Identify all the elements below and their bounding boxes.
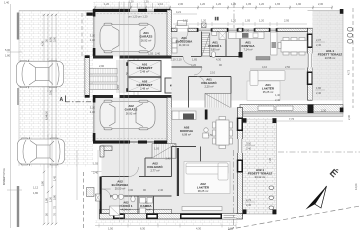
A01 entry door arc <box>178 32 188 42</box>
long vertical dim lines x134/138 <box>134 58 138 222</box>
konyha-laktér wall pier <box>239 52 243 58</box>
street fence wall segment 1 <box>17 13 19 40</box>
svg-text:2,10: 2,10 <box>90 110 96 114</box>
garage A02 roof dashed <box>97 137 167 139</box>
column marker box on wall <box>202 23 207 28</box>
svg-text:ELŐSZOBA: ELŐSZOBA <box>176 38 194 43</box>
svg-text:1,10: 1,10 <box>171 58 177 62</box>
tag symbols near terrace <box>269 186 274 209</box>
terrace A02.1 columns <box>273 118 277 123</box>
paver hatch above garage <box>93 2 170 10</box>
svg-text:4,14 m²: 4,14 m² <box>121 207 130 211</box>
svg-text:26,92 m²: 26,92 m² <box>141 38 152 42</box>
gépészet divider <box>128 76 161 78</box>
svg-text:1,05: 1,05 <box>245 19 251 23</box>
svg-text:1,50: 1,50 <box>108 226 114 230</box>
garage A01 interior <box>93 12 167 57</box>
svg-text:4,30: 4,30 <box>196 226 202 230</box>
svg-text:4,30: 4,30 <box>40 40 44 46</box>
gépészet wall piers <box>126 62 130 66</box>
A02 doormat <box>87 188 95 197</box>
svg-text:5,02: 5,02 <box>228 226 234 230</box>
svg-text:1,90: 1,90 <box>296 2 302 6</box>
setback dashed upper left <box>81 13 83 57</box>
svg-text:23,58 m²: 23,58 m² <box>325 56 336 60</box>
svg-text:1,20: 1,20 <box>231 19 237 23</box>
car 1 (driveway top) <box>17 60 64 88</box>
door arc dolgozo <box>197 77 205 85</box>
svg-text:1,20: 1,20 <box>200 2 206 6</box>
A01 partitions <box>172 32 241 110</box>
svg-text:1,80: 1,80 <box>5 54 11 58</box>
svg-text:KONYHA: KONYHA <box>241 44 255 48</box>
svg-text:2,50: 2,50 <box>285 65 291 69</box>
svg-text:DOLGOZÓ: DOLGOZÓ <box>201 80 217 85</box>
A01 kitchen island <box>256 57 270 61</box>
svg-text:2,48 m²: 2,48 m² <box>140 69 149 73</box>
svg-text:LAKTÉR: LAKTÉR <box>262 85 275 90</box>
svg-text:GÉPÉSZET: GÉPÉSZET <box>136 82 152 87</box>
party wall lintel boxes <box>258 106 274 111</box>
svg-text:1,20: 1,20 <box>104 2 110 6</box>
svg-text:35,25 m²: 35,25 m² <box>263 90 274 94</box>
svg-text:2,40: 2,40 <box>316 91 322 95</box>
svg-text:1,05: 1,05 <box>154 147 160 151</box>
svg-text:2,40: 2,40 <box>158 188 164 192</box>
A02 left wall <box>100 177 102 214</box>
svg-text:1,20: 1,20 <box>129 0 135 4</box>
svg-text:2,40: 2,40 <box>155 52 161 56</box>
svg-text:2,40: 2,40 <box>275 98 281 102</box>
property boundary dashed vertical (bottom-left) <box>83 172 85 230</box>
svg-text:2,40: 2,40 <box>93 171 99 175</box>
kamra room <box>165 78 186 93</box>
svg-text:2,10: 2,10 <box>210 71 216 75</box>
svg-text:2,10: 2,10 <box>177 58 183 62</box>
A02 bottom wall windows <box>113 214 125 220</box>
konyha wall stub black <box>205 110 208 120</box>
street fence wall segment 2 <box>17 88 19 105</box>
svg-text:DOLGOZÓ: DOLGOZÓ <box>147 164 163 169</box>
door arc corridor <box>194 67 202 75</box>
svg-text:1,20: 1,20 <box>216 2 222 6</box>
A01 dining table <box>278 38 307 56</box>
svg-text:2,30: 2,30 <box>347 114 351 120</box>
window tag symbols <box>348 28 353 44</box>
svg-text:2,10: 2,10 <box>90 38 96 42</box>
svg-text:1,12: 1,12 <box>33 186 39 190</box>
svg-text:1,20: 1,20 <box>259 19 265 23</box>
A02 kamra fixtures <box>140 198 146 204</box>
svg-text:1,20: 1,20 <box>231 2 237 6</box>
car 2 (driveway bottom) <box>18 137 65 165</box>
svg-text:1,80: 1,80 <box>316 86 322 90</box>
svg-text:2,90: 2,90 <box>99 64 105 68</box>
terrace A01.1 columns <box>340 9 344 14</box>
A02 lower-left interior <box>102 144 172 216</box>
A01 right wall hatched <box>308 28 313 100</box>
gépészet X marks <box>129 61 161 76</box>
svg-text:23,12 m²: 23,12 m² <box>255 175 266 179</box>
party wall (A01/A02) hatched right part <box>240 105 343 113</box>
svg-text:3,80 m²: 3,80 m² <box>210 47 219 51</box>
party wall hatched left part <box>165 109 241 113</box>
svg-text:7,20: 7,20 <box>244 29 250 33</box>
A01 right wall windows (black frames) <box>307 34 313 49</box>
svg-text:4,20: 4,20 <box>191 63 197 67</box>
svg-text:KISKERT UTCA: KISKERT UTCA <box>3 168 6 185</box>
garage A01 bottom wall <box>93 56 113 59</box>
svg-text:5,00: 5,00 <box>5 48 11 52</box>
A01 main interior <box>172 32 308 101</box>
svg-text:1,05: 1,05 <box>246 2 252 6</box>
door arc előszoba-corridor <box>183 57 191 65</box>
A02 hatched L wall below garage <box>100 146 112 151</box>
gépészet block interior <box>128 61 161 92</box>
setback dash-dot vertical near terrace <box>233 150 235 229</box>
svg-text:1,55: 1,55 <box>93 162 99 166</box>
svg-text:6,00: 6,00 <box>48 36 52 42</box>
A01 terrace door gap <box>307 54 312 68</box>
svg-text:2,95: 2,95 <box>284 19 290 23</box>
svg-text:3,00: 3,00 <box>52 36 56 42</box>
svg-text:2,40: 2,40 <box>166 157 172 161</box>
window jamb caps top wall <box>197 28 278 31</box>
svg-text:1,45: 1,45 <box>52 175 56 181</box>
bottom paver strip <box>95 220 238 226</box>
window tick pairs above garage <box>130 3 152 9</box>
boundary dashed vertical right (top) <box>352 8 354 108</box>
court floor <box>116 60 128 93</box>
svg-text:20,50 m²: 20,50 m² <box>115 186 126 190</box>
slash ticks on top chain <box>94 7 333 9</box>
A01 wardrobe <box>172 38 177 43</box>
svg-text:GÉPÉSZET: GÉPÉSZET <box>136 65 152 70</box>
svg-text:3,00: 3,00 <box>90 106 96 110</box>
svg-text:6,30: 6,30 <box>140 226 146 230</box>
svg-text:6,08 m²: 6,08 m² <box>182 132 191 136</box>
svg-text:1,80: 1,80 <box>44 197 48 203</box>
car in garage A02 <box>100 100 155 130</box>
A01 upper stairs strip <box>202 33 210 56</box>
A01 stairs <box>205 94 231 109</box>
svg-text:1,80: 1,80 <box>33 191 39 195</box>
ramp band 1 <box>90 68 118 74</box>
svg-text:2,77 m²: 2,77 m² <box>150 168 159 172</box>
terrace A02.1 floor <box>243 118 277 214</box>
svg-text:FEDETT TERASZ: FEDETT TERASZ <box>248 171 273 175</box>
A02 corridor door arc <box>129 167 139 177</box>
svg-text:4,50: 4,50 <box>44 110 48 116</box>
A02 bath fixtures <box>112 194 117 199</box>
A01 rug <box>247 81 280 101</box>
ramp band 3 <box>90 84 118 89</box>
svg-text:2,10: 2,10 <box>116 84 120 90</box>
A01 windows in top wall <box>198 29 277 31</box>
svg-text:1,85: 1,85 <box>192 58 198 62</box>
garage A01 right wall <box>167 10 172 57</box>
svg-text:7,76: 7,76 <box>289 117 295 121</box>
svg-text:5,80: 5,80 <box>40 180 44 186</box>
svg-text:3,00: 3,00 <box>246 142 252 146</box>
wall corner cap <box>87 13 93 16</box>
svg-text:7,26: 7,26 <box>268 157 272 163</box>
A02 right part interior (above) <box>172 108 238 216</box>
terrace strip below party wall <box>243 113 343 116</box>
A01 bathroom fixtures <box>212 32 217 36</box>
garage A01 left wall / door <box>93 9 96 17</box>
svg-text:A: A <box>60 97 64 103</box>
svg-text:2,10: 2,10 <box>158 2 164 6</box>
vertical dim line group A (x 42-58) <box>44 14 56 224</box>
svg-text:12,04: 12,04 <box>354 183 358 190</box>
dash-dot over interior <box>233 150 235 229</box>
svg-text:2,48 m²: 2,48 m² <box>140 86 149 90</box>
street fence wall segment 3 <box>17 186 19 227</box>
svg-text:3,00: 3,00 <box>128 188 134 192</box>
setback dash-dot vertical top segment <box>233 2 235 28</box>
long site dim lines through garages <box>120 2 129 223</box>
shaft box <box>96 194 101 201</box>
A02 sofa/rug block <box>184 162 230 194</box>
A02 entry door arc <box>102 189 111 198</box>
svg-text:4,10: 4,10 <box>262 65 268 69</box>
wall előszoba/laktér <box>177 148 179 196</box>
svg-text:1,40: 1,40 <box>275 93 281 97</box>
svg-text:2,20 m²: 2,20 m² <box>204 84 213 88</box>
vertical dim lines through garage (x 118-128) <box>119 2 129 10</box>
svg-text:FÜRDŐ 1: FÜRDŐ 1 <box>208 43 221 48</box>
driveway top edge line <box>19 10 93 12</box>
garage A01 windows in top wall <box>130 9 138 11</box>
left dimension chain <box>7 4 22 228</box>
dim lines over driveway cars <box>48 58 56 168</box>
party wall black cap <box>308 105 314 115</box>
driveway left edge line <box>18 11 20 167</box>
svg-text:1,20: 1,20 <box>144 0 150 4</box>
svg-text:5,80: 5,80 <box>52 194 56 200</box>
property boundary dashed diagonal (bottom-right) <box>228 206 360 230</box>
north arrow <box>306 186 327 210</box>
A01 entry step outside <box>178 21 187 26</box>
svg-text:2,30: 2,30 <box>318 2 324 6</box>
terrace A01.1 floor <box>313 11 344 101</box>
garage A02 right wall <box>167 98 172 147</box>
garage A01 top wall <box>93 9 130 12</box>
A01 laktér dim line <box>250 68 305 70</box>
garage A01 roof dashed <box>97 13 167 15</box>
svg-text:3,00: 3,00 <box>90 34 96 38</box>
A02 tv board <box>182 207 222 211</box>
svg-text:1,20: 1,20 <box>48 196 52 202</box>
svg-text:GARÁZS: GARÁZS <box>125 107 138 112</box>
svg-text:GARÁZS: GARÁZS <box>140 34 153 39</box>
svg-text:1,20: 1,20 <box>259 2 265 6</box>
svg-text:1,20: 1,20 <box>201 19 207 23</box>
svg-text:KAMRA: KAMRA <box>140 204 152 208</box>
garage A02 bottom wall <box>93 141 130 144</box>
A02 kitchen counter <box>172 111 196 120</box>
garage A02 top wall <box>93 95 113 98</box>
svg-text:FÜRDŐ 1: FÜRDŐ 1 <box>119 203 132 208</box>
entry width dim <box>173 13 197 15</box>
tiny jamb marks <box>215 17 217 21</box>
bottom dim chain <box>95 224 236 228</box>
secondary dim chain above main block <box>173 22 307 26</box>
svg-text:FEDETT TERASZ: FEDETT TERASZ <box>318 52 343 56</box>
A01 sofa <box>250 71 285 86</box>
svg-text:1,40: 1,40 <box>4 0 10 4</box>
svg-text:2,30: 2,30 <box>178 2 184 6</box>
svg-text:2,40: 2,40 <box>246 203 252 207</box>
svg-text:2,72: 2,72 <box>246 198 252 202</box>
garage A02 interior <box>93 98 167 143</box>
A02 dining table <box>213 117 233 149</box>
tall cabinet column <box>271 32 278 55</box>
A02 right wall hatched <box>238 108 243 216</box>
setback dash-dot horizontal right <box>278 151 360 153</box>
svg-text:1,65: 1,65 <box>275 2 281 6</box>
garage A02 windows in bottom wall <box>130 141 138 143</box>
A02 stairs <box>152 144 176 159</box>
svg-text:38,25 m²: 38,25 m² <box>198 189 209 193</box>
A02 right wall windows <box>237 118 243 132</box>
svg-text:2,40: 2,40 <box>316 43 322 47</box>
svg-text:4,21: 4,21 <box>176 10 182 14</box>
car in garage A01 <box>100 23 155 53</box>
sink unit <box>204 128 208 132</box>
svg-text:1,55: 1,55 <box>148 52 154 56</box>
dim 7,76 under strip <box>245 120 343 122</box>
svg-text:11,30 m²: 11,30 m² <box>179 43 190 47</box>
A02 bottom wall hatched <box>100 209 172 213</box>
A01 kitchen counter <box>229 32 265 39</box>
svg-text:26,92 m²: 26,92 m² <box>126 111 137 115</box>
A02 sofa <box>186 163 228 180</box>
A02 partitions <box>102 147 201 214</box>
svg-text:7,14 m²: 7,14 m² <box>243 47 252 51</box>
A01 top wall hatched <box>172 28 308 31</box>
svg-text:2,40: 2,40 <box>246 146 252 150</box>
driveway paver area <box>19 11 93 167</box>
A02 terrace door gap <box>237 139 242 153</box>
top dimension chain <box>95 6 332 10</box>
ramp band 2 <box>90 76 118 82</box>
svg-text:2,07: 2,07 <box>316 38 322 42</box>
vertical dim line group B (x 96-116) <box>98 150 113 222</box>
svg-text:4,73: 4,73 <box>347 69 351 75</box>
svg-text:pm 1,20 pm 1,20: pm 1,20 pm 1,20 <box>128 15 148 19</box>
svg-text:4,30: 4,30 <box>216 58 222 62</box>
svg-text:2,30: 2,30 <box>321 109 327 113</box>
svg-text:KONYHA: KONYHA <box>180 129 194 133</box>
retaining wall west of court <box>85 56 90 98</box>
garage A02 left wall <box>93 95 96 103</box>
svg-text:LAKTÉR: LAKTÉR <box>197 184 210 189</box>
svg-text:ELŐSZOBA: ELŐSZOBA <box>112 182 130 187</box>
